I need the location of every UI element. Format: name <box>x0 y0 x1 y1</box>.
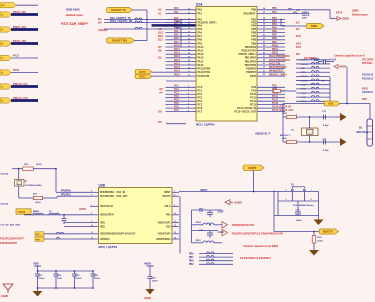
svg-text:D11: D11 <box>158 38 163 42</box>
wire vert x57 <box>56 196 58 198</box>
wire USART TX to vertical <box>133 9 148 11</box>
wire r23 top <box>313 232 315 236</box>
resistor R23 <box>312 236 316 244</box>
junction r21 b <box>55 168 57 170</box>
svg-text:PA13: PA13 <box>198 57 204 60</box>
svg-text:S1: S1 <box>291 183 295 186</box>
svg-text:100nF: 100nF <box>38 278 45 280</box>
wire pin stub left PC6 <box>166 107 197 109</box>
power port AVDD mid <box>334 65 338 69</box>
cap C28 <box>323 59 325 64</box>
wire PB7 bottom <box>199 256 233 258</box>
svg-text:R27: R27 <box>33 194 38 196</box>
cap C12 <box>323 140 325 145</box>
svg-text:D8: D8 <box>158 49 162 53</box>
svg-text:11: 11 <box>174 221 176 223</box>
svg-text:7: 7 <box>174 191 175 193</box>
wire pin stub right row18 <box>257 75 285 77</box>
wire PC2 <box>11 57 38 59</box>
svg-text:PA8: PA8 <box>174 37 179 40</box>
port MCO (top-left) <box>0 3 16 8</box>
wire X2 bottom <box>297 141 337 143</box>
svg-text:100nF: 100nF <box>75 278 82 280</box>
junction osc b <box>309 141 311 143</box>
svg-text:PB[14..15]: PB[14..15] <box>13 96 28 100</box>
svg-text:VDD: VDD <box>100 222 105 224</box>
svg-text:9: 9 <box>188 110 189 112</box>
wire KEY1 to IC <box>152 75 166 77</box>
cap C26 <box>148 276 153 278</box>
wire pin stub left PC2 <box>166 93 197 95</box>
mid hop arc 10 <box>311 100 314 102</box>
U2B right stub PD1 R3 <box>172 214 179 216</box>
wire pin stub left PA row11 <box>166 50 197 52</box>
svg-text:32.768kHz[51A]: 32.768kHz[51A] <box>25 184 41 187</box>
wire usb top <box>340 103 370 105</box>
svg-text:[51A]: [51A] <box>34 202 41 204</box>
usb B1 body <box>367 119 373 146</box>
wire X2 vert bot <box>309 136 311 143</box>
svg-text:PA13/JTMS: PA13/JTMS <box>198 68 211 71</box>
cap C21 <box>209 210 211 212</box>
svg-text:L2: L2 <box>49 211 52 213</box>
cap C14 <box>297 201 299 212</box>
junction C24 b <box>55 287 57 289</box>
svg-text:C23: C23 <box>75 275 80 277</box>
mid wire 6 <box>296 84 330 86</box>
svg-text:9: 9 <box>174 205 175 207</box>
svg-text:X2: X2 <box>291 130 294 132</box>
rail top <box>38 270 94 272</box>
mid hop arc2 2 <box>316 66 319 68</box>
svg-text:D4: D4 <box>296 27 300 31</box>
wire pin stub right PC12 <box>257 100 285 102</box>
tag BOOT0 <box>319 229 339 234</box>
svg-text:8: 8 <box>91 213 92 215</box>
port PB[10..11] <box>0 84 11 89</box>
svg-text:PA6: PA6 <box>174 30 179 33</box>
svg-text:PB[0..15]: PB[0..15] <box>13 25 26 29</box>
svg-text:PD8: PD8 <box>362 98 367 101</box>
svg-text:C24: C24 <box>57 274 62 277</box>
U2B right stub VSS/PP4/PA2 R7 <box>172 238 179 240</box>
svg-text:51: 51 <box>263 70 265 72</box>
svg-text:R24: R24 <box>283 112 288 115</box>
svg-text:AGND: AGND <box>234 200 242 204</box>
svg-text:P302/D13: P302/D13 <box>362 74 374 77</box>
svg-text:[51A]: [51A] <box>35 164 42 166</box>
cap C22 <box>209 231 211 233</box>
wire NRST drop <box>253 170 255 191</box>
wire X2 top <box>297 116 337 118</box>
mid hop arc 9 <box>311 96 314 98</box>
svg-text:8: 8 <box>188 107 189 109</box>
wire pin stub right row11 <box>257 50 285 52</box>
wire pin stub right PC8 <box>257 86 285 88</box>
svg-text:1: 1 <box>311 189 312 191</box>
svg-text:100nF: 100nF <box>296 220 303 222</box>
wire to tag row <box>281 25 306 27</box>
wire R22 right <box>281 90 297 92</box>
hop arc right RX <box>176 27 179 29</box>
wire net TX <box>104 19 196 21</box>
hop arc AVDD crossing <box>135 27 138 29</box>
mid hop arc2 6 <box>316 83 319 85</box>
wire pin stub left PA row2 <box>166 19 197 21</box>
svg-text:9: 9 <box>91 221 92 223</box>
wire r21 right <box>33 168 56 170</box>
junction C23 b <box>74 287 76 289</box>
wire fb10 left <box>192 224 204 226</box>
wire pin stub right row3 <box>257 22 285 24</box>
svg-text:4: 4 <box>311 198 313 201</box>
svg-text:P301/PC10/P373/PF2 & P300/P402: P301/PC10/P373/PF2 & P300/P402/VCAP2 <box>232 232 284 236</box>
svg-text:U2B: U2B <box>99 183 106 187</box>
wire pin stub right row15 <box>257 64 285 66</box>
wire KEY0 to IC <box>152 71 166 73</box>
svg-text:38: 38 <box>263 24 265 26</box>
svg-text:P302/D11: P302/D11 <box>362 91 374 94</box>
svg-text:P373/3D..: P373/3D.. <box>362 62 373 65</box>
wire pin stub right row2 <box>257 19 285 21</box>
svg-text:36: 36 <box>263 18 265 20</box>
svg-text:4.3pF: 4.3pF <box>323 124 329 127</box>
svg-text:AB025-IG.T: AB025-IG.T <box>255 132 270 136</box>
wire pf7 <box>44 233 76 235</box>
svg-text:PA5: PA5 <box>198 28 203 31</box>
svg-text:46: 46 <box>263 51 265 54</box>
svg-text:P0: P0 <box>1 44 3 46</box>
svg-text:BOOT0: BOOT0 <box>323 230 333 234</box>
hop arc PB8 <box>206 259 209 261</box>
svg-text:D13: D13 <box>158 31 163 35</box>
U2B pin stub VDD/VDDUSB/VSA/PF:VU/VCAP L6 <box>90 233 99 235</box>
svg-text:PB8: PB8 <box>272 37 277 40</box>
svg-text:7: 7 <box>91 205 92 207</box>
tag USART TX <box>107 7 133 12</box>
svg-text:100nF: 100nF <box>94 278 101 280</box>
svg-text:D0 P373/PA3 & P302/PF4: D0 P373/PA3 & P302/PF4 <box>240 256 271 260</box>
svg-text:PA7: PA7 <box>198 35 203 38</box>
mid hop arc2 4 <box>316 75 319 77</box>
wire pin stub left PA row12 <box>166 53 197 55</box>
svg-text:2.2nF: 2.2nF <box>218 231 225 234</box>
svg-text:X1: X1 <box>25 181 28 183</box>
svg-text:D3: D3 <box>296 21 300 25</box>
wire pin stub left PA row1 <box>166 13 197 15</box>
mid hop arc2 9 <box>316 96 319 98</box>
svg-text:PB7: PB7 <box>272 34 277 37</box>
wire pin stub left PA row7 <box>166 35 197 37</box>
wire pin stub left PA row15 <box>166 64 197 66</box>
wire pin stub right PC14~OSC32_IN <box>257 107 285 109</box>
wire pin stub right PC13 <box>257 104 285 106</box>
resistor R27 <box>33 196 42 199</box>
svg-text:KEY1: KEY1 <box>139 76 146 79</box>
cap C24 <box>55 271 57 274</box>
svg-text:PA4: PA4 <box>198 24 203 27</box>
junction net TX <box>180 19 182 21</box>
svg-text:26: 26 <box>188 53 190 55</box>
tag USART RX <box>107 38 135 43</box>
wire pin stub left PC1 <box>166 90 197 92</box>
U2B right stub VSS R5 <box>172 226 179 228</box>
bus segment into PA <box>152 24 196 27</box>
wire pin stub left PA row18 <box>166 75 197 77</box>
svg-text:12: 12 <box>91 237 93 239</box>
hop arc PB9 <box>206 263 209 265</box>
svg-text:PB4: PB4 <box>251 24 256 27</box>
wire pin stub left PA row17 <box>166 71 197 73</box>
svg-text:6: 6 <box>188 100 189 102</box>
svg-text:Ceramic capacitor (Low ESR): Ceramic capacitor (Low ESR) <box>243 245 278 248</box>
ground osc1 <box>336 116 340 118</box>
mini tag PF7 <box>35 232 44 236</box>
wire pin stub right PC15~OSC32_OUT <box>257 111 285 113</box>
ground S1 <box>314 220 324 226</box>
pointer VCAP1 <box>222 222 228 229</box>
svg-text:PB8: PB8 <box>251 39 256 42</box>
wire row20 <box>166 80 196 82</box>
wire pin stub left PC0 <box>166 86 197 88</box>
svg-text:USB (Blue): USB (Blue) <box>356 132 368 134</box>
mid wire 0 <box>296 59 330 61</box>
power tag VCC3 <box>16 209 31 214</box>
svg-text:[10k]: [10k] <box>318 241 323 243</box>
wire USART RX stub <box>135 40 148 42</box>
tag NRST <box>243 165 264 170</box>
svg-text:AVDD: AVDD <box>339 65 346 69</box>
mid hop arc 0 <box>311 58 314 60</box>
svg-text:PB13/PE4: PB13/PE4 <box>245 57 257 60</box>
wire pin stub right row16 <box>257 68 285 70</box>
wire net RX <box>104 22 196 24</box>
wire PC8 <box>11 72 38 74</box>
wire pin stub right row0 <box>257 9 285 11</box>
svg-text:D0: D0 <box>98 21 102 25</box>
wire x1 top lead <box>18 169 20 180</box>
svg-text:32: 32 <box>188 75 190 77</box>
svg-text:PA7: PA7 <box>174 34 179 37</box>
svg-text:2.2nF: 2.2nF <box>217 211 224 214</box>
U2B pin stub PF1/PD1/PH1 - OSC_OUT L1 <box>90 195 99 197</box>
wire pin stub right row7 <box>257 35 285 37</box>
wire vdd rows <box>64 222 90 224</box>
cap C11 <box>323 115 325 120</box>
svg-text:PA10: PA10 <box>198 46 204 49</box>
resistor R24 <box>287 115 297 118</box>
wire MCO stub <box>16 4 38 6</box>
port PB[0..15] <box>0 27 11 32</box>
svg-text:PA9: PA9 <box>174 41 179 44</box>
hop arc PB7 <box>206 256 209 258</box>
cap C17 <box>37 271 39 274</box>
wire pin stub left PA row4 <box>166 24 197 26</box>
U2B right stub VSS/VCAP2 R6 <box>172 233 179 235</box>
wire S1 rail2 <box>278 200 319 202</box>
svg-text:5: 5 <box>91 191 92 193</box>
junction vdda <box>63 214 65 216</box>
svg-text:MCO: MCO <box>1 5 6 7</box>
svg-text:2: 2 <box>188 86 189 88</box>
svg-text:Default open: Default open <box>352 13 368 17</box>
svg-text:PB10: PB10 <box>272 44 279 47</box>
wire pf5 up <box>70 238 76 240</box>
wire swd vert <box>280 20 282 26</box>
svg-text:D2: D2 <box>158 56 162 60</box>
IC U2B body <box>99 188 173 244</box>
wire vertical x144 <box>146 10 148 41</box>
mid wire 4 <box>296 75 330 77</box>
svg-text:3: 3 <box>188 90 189 92</box>
bus wire PB[0..15] <box>11 28 38 31</box>
junction C17 b <box>37 287 39 289</box>
junction C23 t <box>74 270 76 272</box>
svg-text:PA1: PA1 <box>198 13 203 16</box>
U2B pin stub VDD L5 <box>90 226 99 228</box>
svg-text:PB10/PE3: PB10/PE3 <box>245 46 257 49</box>
tag OSC oval <box>324 101 340 106</box>
mid hop arc 2 <box>311 66 314 68</box>
svg-text:PB8: PB8 <box>189 261 194 263</box>
wire vcap left vert <box>191 210 193 243</box>
wire pin stub left PC3 <box>166 97 197 99</box>
svg-text:VDD: VDD <box>33 262 39 266</box>
wire pin stub right PC11 <box>257 97 285 99</box>
wire vdda rail <box>24 214 90 216</box>
wire PB8 bottom <box>199 260 233 262</box>
svg-text:AGND: AGND <box>143 297 151 300</box>
wire pin stub right row4 <box>257 24 285 26</box>
svg-text:R26: R26 <box>283 138 288 140</box>
mid hop arc 7 <box>311 87 314 89</box>
svg-text:PA11: PA11 <box>198 50 204 53</box>
wire X2 vert top <box>309 117 311 128</box>
svg-text:P300/P402/VCAP1: P300/P402/VCAP1 <box>232 223 255 227</box>
svg-text:D7: D7 <box>158 45 162 49</box>
svg-text:PA0: PA0 <box>198 9 203 12</box>
svg-text:R23: R23 <box>318 237 323 239</box>
svg-text:SWO: SWO <box>302 17 307 19</box>
wire S1 vert right <box>318 192 320 216</box>
crystal X2 box <box>302 128 319 136</box>
svg-text:13: 13 <box>174 232 176 234</box>
wire pin stub left PA row16 <box>166 68 197 70</box>
wire pin stub right row10 <box>257 46 285 48</box>
svg-text:AGND: AGND <box>0 295 8 298</box>
svg-text:35: 35 <box>263 12 265 14</box>
wire vert x56 <box>55 169 57 193</box>
svg-text:P301/PC10/P373/PF7: P301/PC10/P373/PF7 <box>0 238 24 241</box>
svg-text:VDD/VDDUSB/VSA/PF:VU/VCAP: VDD/VDDUSB/VSA/PF:VU/VCAP <box>100 233 136 236</box>
junction net RX <box>180 22 182 24</box>
svg-text:D10: D10 <box>296 34 301 38</box>
svg-text:P302/D12: P302/D12 <box>362 77 374 80</box>
svg-text:37: 37 <box>263 21 265 23</box>
wire pf5 <box>44 238 70 240</box>
power AGND pointer <box>225 200 230 205</box>
junction x347 <box>346 103 348 105</box>
svg-text:8M/32-6-T: 8M/32-6-T <box>280 135 291 137</box>
svg-text:A5: A5 <box>158 87 163 91</box>
svg-text:KEY0: KEY0 <box>336 12 343 15</box>
wire pin stub left PC5 <box>166 104 197 106</box>
svg-text:C12: C12 <box>322 139 327 141</box>
wire S1 rail3 <box>274 215 319 217</box>
svg-text:PA[0..15]: PA[0..15] <box>13 10 26 14</box>
ground R23 <box>309 250 319 256</box>
svg-text:OSC: OSC <box>328 102 334 106</box>
wire fb10 right <box>214 224 222 226</box>
svg-text:PB1/VREF-: PB1/VREF- <box>244 13 257 16</box>
U2B pin stub PF0/PD0/PH1 - OSC_IN L0 <box>90 191 99 193</box>
svg-text:25: 25 <box>188 49 190 51</box>
mid hop arc2 3 <box>316 71 319 73</box>
mid wire 3 <box>296 71 330 73</box>
wire PB9 bottom <box>199 263 233 265</box>
gnd stem S1 <box>318 216 320 220</box>
cap C25 <box>92 271 94 274</box>
U2B pin stub VDD L4 <box>90 222 99 224</box>
svg-text:SWD: SWD <box>352 9 359 13</box>
svg-text:PA12: PA12 <box>174 52 180 55</box>
junction C17 t <box>37 270 39 272</box>
svg-text:PD9/PE7: PD9/PE7 <box>246 71 257 74</box>
svg-text:C11: C11 <box>322 111 327 113</box>
svg-text:C26: C26 <box>152 277 157 279</box>
wire osc out <box>57 195 90 197</box>
crystal X1 <box>15 179 24 186</box>
tag SWDIO oval <box>306 23 324 28</box>
wire NRST horizontal <box>179 191 278 193</box>
hop arc PB6 <box>206 252 209 254</box>
wire pin stub right row14 <box>257 60 285 62</box>
wire C28 right <box>326 61 335 63</box>
wire pin stub left PA row6 <box>166 32 197 34</box>
svg-text:PA14: PA14 <box>198 60 204 63</box>
svg-text:P0: P0 <box>1 58 3 60</box>
power port AVDD top <box>330 18 337 20</box>
wire pin stub right row13 <box>257 57 285 59</box>
svg-text:PC8: PC8 <box>13 68 19 72</box>
wire pin stub left PA row3 <box>166 22 197 24</box>
svg-text:PA15: PA15 <box>174 74 180 77</box>
svg-text:PB11: PB11 <box>272 48 279 51</box>
svg-text:PA15: PA15 <box>174 62 180 65</box>
bus wire PA[0..15] <box>11 13 38 16</box>
svg-text:R22: R22 <box>273 88 278 90</box>
wire fb11 right <box>214 242 222 244</box>
svg-text:P0: P0 <box>1 87 3 89</box>
switch S1 poles <box>291 191 293 201</box>
mid hop arc 3 <box>311 71 314 73</box>
svg-text:48: 48 <box>263 59 265 62</box>
wire pin stub right PC10 <box>257 93 285 95</box>
mid wire 9 <box>296 96 330 98</box>
wire C28 left <box>318 61 324 63</box>
svg-text:PA14/JTCK: PA14/JTCK <box>198 71 211 74</box>
junction swd <box>280 19 282 21</box>
bus wire PB[14..15] <box>11 99 38 102</box>
bus wire PC[0..15] <box>11 42 38 45</box>
wire S1 vert left <box>277 192 279 216</box>
svg-text:12: 12 <box>174 225 176 227</box>
svg-text:PA15/JTDI: PA15/JTDI <box>269 62 281 65</box>
svg-text:PB6: PB6 <box>251 32 256 35</box>
svg-text:nF[51A]: nF[51A] <box>0 203 8 205</box>
mid hop arc 6 <box>311 83 314 85</box>
svg-text:MCU_LQFP64: MCU_LQFP64 <box>99 245 118 249</box>
